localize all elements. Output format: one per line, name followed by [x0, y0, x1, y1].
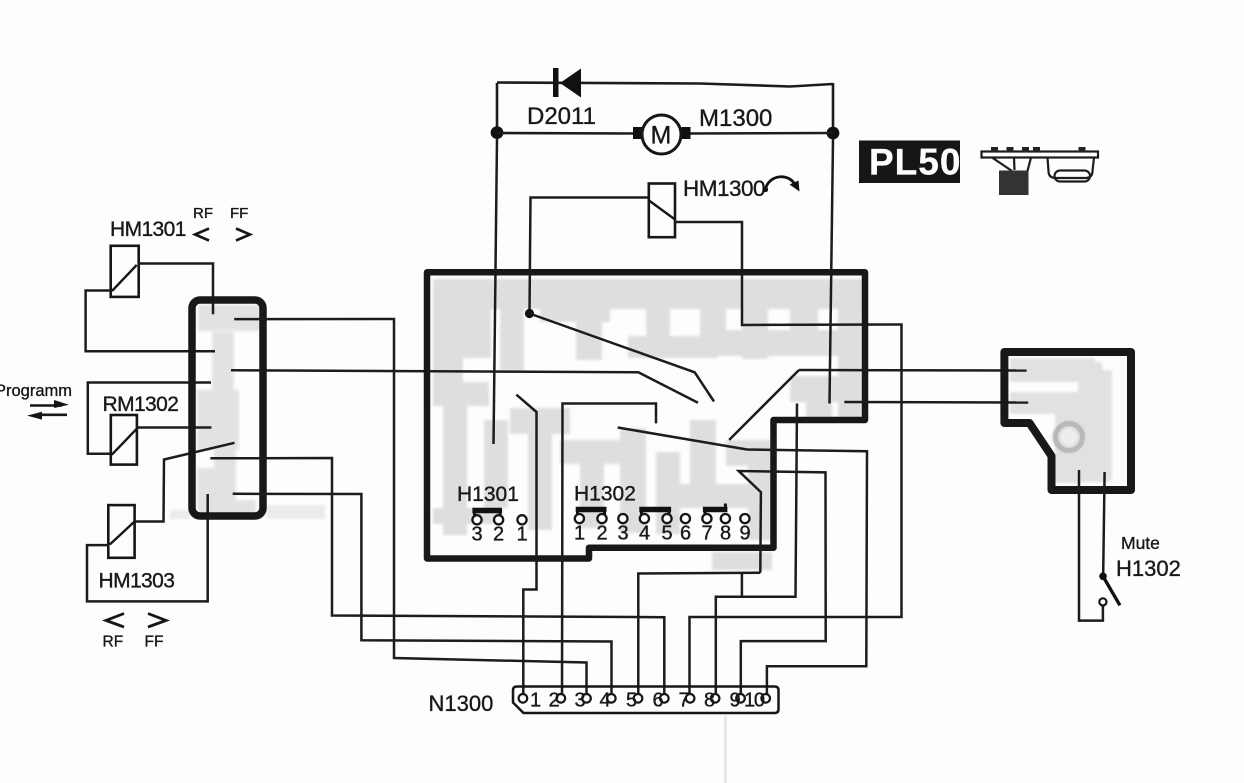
wire RM1302 terminal into block	[137, 426, 212, 429]
rotation arrow	[763, 177, 800, 192]
arrow right FF	[236, 229, 250, 241]
svg-text:Programm: Programm	[0, 382, 72, 400]
svg-text:FF: FF	[145, 634, 164, 651]
svg-text:HM1301: HM1301	[110, 218, 186, 241]
wire sloped contact to N1300 pin 10	[618, 428, 867, 695]
svg-text:M1300: M1300	[699, 105, 772, 132]
relay RM1302	[103, 393, 179, 465]
wire programm bracket into block	[88, 383, 211, 454]
svg-text:D2011: D2011	[527, 103, 596, 130]
svg-text:8: 8	[704, 690, 715, 712]
wire right block pin right to switch	[1103, 472, 1104, 574]
wire block stub y370 long with open diagonal	[231, 370, 698, 402]
wire to right block y402	[844, 401, 1028, 404]
node A junction dot	[491, 126, 504, 139]
wire node B down into central block	[830, 139, 834, 404]
svg-text:N1300: N1300	[429, 691, 494, 716]
arrow left RF (HM1303)	[106, 614, 124, 628]
svg-text:RF: RF	[103, 634, 124, 651]
arrow left RF	[195, 229, 209, 241]
svg-text:1: 1	[574, 523, 585, 545]
svg-text:H1301: H1301	[457, 483, 519, 506]
svg-text:HM1303: HM1303	[99, 570, 175, 593]
svg-text:3: 3	[618, 523, 629, 545]
svg-text:6: 6	[680, 523, 691, 545]
gray texture : right block interior	[1010, 358, 1112, 483]
wire top loop	[497, 83, 833, 87]
wire HM1303 bracket into block bottom	[87, 494, 208, 601]
svg-text:2: 2	[549, 690, 560, 712]
svg-text:RM1302: RM1302	[103, 393, 179, 416]
svg-text:1: 1	[530, 690, 541, 712]
wire N1300 pin 9 riser with chamfer	[739, 471, 826, 694]
wire jog to N1300 pin 5	[638, 573, 760, 694]
svg-text:7: 7	[679, 690, 690, 712]
svg-text:4: 4	[600, 690, 611, 712]
motor M1300	[633, 105, 772, 154]
wire stub to pin8 line	[741, 573, 744, 597]
svg-text:8: 8	[720, 523, 731, 545]
wire block stub y458 to N1300 pin 6	[210, 458, 664, 694]
svg-text:H1302: H1302	[574, 483, 636, 506]
svg-text:1: 1	[517, 524, 528, 546]
svg-text:H1302: H1302	[1116, 556, 1181, 581]
svg-text:3: 3	[472, 524, 483, 546]
wire HM1300 left terminal to node A2	[530, 198, 650, 314]
svg-text:10: 10	[744, 690, 765, 712]
svg-text:4: 4	[639, 523, 650, 545]
svg-text:2: 2	[493, 524, 504, 546]
arrow programm right	[30, 400, 69, 408]
wire HM1301 bottom terminal into block	[86, 291, 215, 352]
relay HM1303	[99, 505, 175, 592]
svg-text:5: 5	[662, 523, 673, 545]
screw hole ring	[1056, 424, 1083, 451]
wire block stub y494 to N1300 pin 4	[233, 494, 612, 694]
wire right vertical from top to node B	[832, 83, 835, 133]
svg-text:HM1300: HM1300	[683, 176, 765, 201]
wire stub diagonal to N1300 pin 1	[516, 395, 536, 694]
wire node A to motor	[497, 132, 636, 135]
wire node A down into central block	[494, 139, 498, 444]
wire right block pin left	[1079, 470, 1103, 621]
arrow programm left	[27, 412, 67, 420]
node B junction dot	[827, 127, 840, 140]
wire motor to node B	[688, 132, 833, 135]
svg-text:Mute: Mute	[1121, 533, 1160, 553]
wire HM1303 right terminal diagonal into block	[135, 443, 235, 522]
svg-text:3: 3	[575, 690, 586, 712]
wire block stub y319 to N1300 pin 3	[234, 319, 586, 694]
wire HM1300 right terminal to N1300 pin 7	[675, 222, 902, 694]
svg-text:PL50: PL50	[869, 142, 961, 183]
svg-text:FF: FF	[230, 205, 248, 222]
wire wiper from node A2 diagonal	[530, 314, 715, 402]
svg-text:RF: RF	[193, 205, 213, 222]
wire wiper right diagonal	[729, 370, 799, 440]
faint scanner streak	[724, 716, 727, 783]
diode D2011	[527, 68, 596, 130]
relay HM1301	[110, 218, 186, 297]
wire to right block y370	[799, 369, 1027, 372]
node A2 junction dot	[525, 309, 534, 318]
wire left vertical from top to node A	[496, 83, 499, 133]
svg-text:2: 2	[597, 523, 608, 545]
switch H1302 mute	[1099, 573, 1120, 606]
svg-text:M: M	[651, 122, 672, 150]
arrow right FF (HM1303)	[148, 614, 166, 628]
gray texture : left block interior	[170, 305, 325, 519]
svg-text:9: 9	[730, 690, 741, 712]
svg-text:5: 5	[626, 690, 637, 712]
wire inner contact rectangle to N1300 pin 2	[562, 404, 656, 695]
wire open contact to N1300 pin 8	[716, 404, 797, 695]
svg-text:9: 9	[740, 523, 751, 545]
svg-text:7: 7	[702, 523, 713, 545]
svg-text:6: 6	[653, 690, 664, 712]
relay HM1300	[649, 176, 765, 237]
wire HM1301 top terminal into block	[139, 264, 213, 315]
